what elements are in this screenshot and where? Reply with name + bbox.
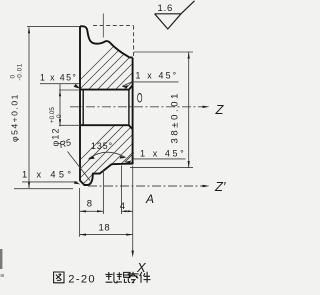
dim 18: dimension line (80, 234, 133, 236)
dim 4: dimension line (122, 210, 133, 212)
hole left inner edge (double line at hole left end) (83, 90, 129, 126)
svg-text:φ54+0.01: φ54+0.01 (10, 93, 20, 142)
svg-text:0: 0 (10, 75, 17, 79)
svg-text:O: O (137, 91, 143, 106)
dim 8: extension line (102, 170, 104, 214)
caption CJK glyph: zha (105, 272, 117, 283)
X axis line (132, 166, 134, 254)
svg-text:-0.01: -0.01 (17, 63, 24, 80)
dim phi54: bottom extension line (14, 188, 73, 190)
groove arc center tick line (102, 14, 104, 38)
dim phi12: dimension line (59, 84, 61, 127)
dim 38+-0.01: extension lines (130, 52, 193, 168)
dim phi54: arrows (28, 27, 30, 34)
dim 38: arrows (188, 52, 190, 59)
caption CJK glyph: jian (140, 272, 151, 283)
Z axis arrow (203, 106, 210, 108)
X axis arrow (132, 251, 134, 258)
dim 4: extension line (121, 166, 123, 215)
svg-text:0: 0 (56, 114, 63, 118)
svg-text:Z′: Z′ (214, 179, 226, 194)
Z' axis arrow (203, 185, 210, 187)
svg-text:4: 4 (120, 201, 125, 212)
caption CJK glyph: gun (117, 272, 131, 283)
dim phi12: extension lines (59, 90, 80, 125)
left face lower extension line (for dims 8/18) (79, 188, 81, 237)
part outline: top edge, roller groove curve, right top corner, right face, hole top chamfer, hole top wall (80, 26, 133, 89)
caption CJK glyph: ling (128, 272, 139, 283)
dim 38: dimension line (188, 52, 190, 168)
svg-text:1.6: 1.6 (158, 3, 174, 14)
dim 8 arrows (80, 210, 86, 212)
svg-text:18: 18 (99, 222, 111, 233)
dim phi54: top extension line (27, 25, 80, 27)
svg-text:1 x 45°: 1 x 45° (22, 169, 75, 179)
dim 4 arrows (122, 210, 127, 212)
svg-text:1 x 45°: 1 x 45° (136, 71, 179, 81)
part outline: left face, bottom chamfer 1x45, bottom face, fillet R5, 135-deg slant, lower step, right face, hole bottom wall (80, 26, 133, 185)
svg-text:A: A (145, 192, 154, 206)
Z' axis line (88, 185, 206, 187)
svg-text:1 x 45°: 1 x 45° (40, 73, 77, 83)
caption CJK glyph: tu (figure) (54, 272, 64, 283)
hatching lower section (40, 110, 229, 200)
svg-text:+0.05: +0.05 (49, 107, 56, 123)
Z axis centerline (70, 106, 206, 108)
scan artifact left edge (0, 249, 2, 269)
dim 18 arrows (80, 234, 86, 236)
svg-text:135°: 135° (91, 141, 113, 151)
svg-text:2-20: 2-20 (68, 274, 96, 286)
hatching upper section (40, 30, 229, 120)
svg-text:8: 8 (87, 198, 92, 209)
svg-text:38±0.01: 38±0.01 (170, 91, 181, 143)
svg-text:Z: Z (215, 102, 225, 117)
dim phi54: dimension line (28, 28, 30, 189)
svg-text:1 x 45°: 1 x 45° (140, 149, 186, 159)
blank (unmachined) corner phantom dashed lines (93, 26, 134, 57)
dim phi12: arrows (59, 90, 61, 96)
dim 8: dimension line (80, 210, 104, 212)
